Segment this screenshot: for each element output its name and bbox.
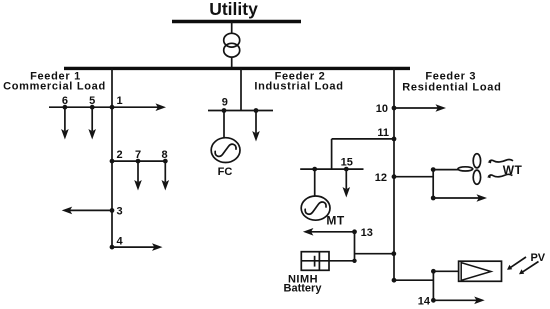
svg-text:8: 8 (162, 149, 168, 161)
svg-text:Industrial Load: Industrial Load (254, 81, 343, 93)
svg-text:2: 2 (117, 149, 123, 161)
svg-text:WT: WT (503, 163, 523, 177)
svg-text:Commercial Load: Commercial Load (3, 81, 106, 93)
svg-text:Battery: Battery (284, 283, 323, 295)
svg-text:6: 6 (62, 95, 68, 107)
svg-text:12: 12 (375, 172, 387, 184)
svg-text:14: 14 (418, 296, 431, 308)
svg-text:13: 13 (361, 227, 373, 239)
svg-text:MT: MT (326, 213, 344, 227)
svg-text:Residential Load: Residential Load (402, 82, 501, 94)
svg-text:FC: FC (218, 166, 233, 178)
svg-text:3: 3 (117, 205, 123, 217)
svg-text:5: 5 (89, 95, 95, 107)
svg-text:11: 11 (377, 127, 389, 139)
svg-text:4: 4 (117, 236, 124, 248)
svg-text:15: 15 (341, 157, 353, 169)
svg-text:Utility: Utility (209, 0, 258, 19)
svg-text:9: 9 (222, 97, 228, 109)
svg-text:7: 7 (135, 149, 141, 161)
svg-text:10: 10 (376, 103, 388, 115)
svg-text:1: 1 (117, 95, 123, 107)
